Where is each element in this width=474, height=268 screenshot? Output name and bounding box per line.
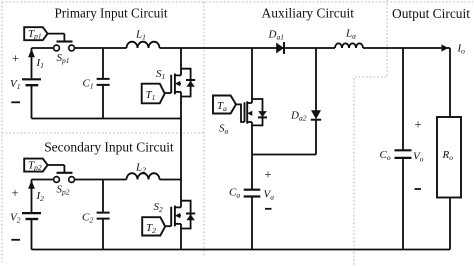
svg-text:Auxiliary Circuit: Auxiliary Circuit (262, 7, 355, 22)
wire bottom rail (32, 249, 451, 251)
current arrow Io (441, 44, 448, 51)
inductor L2 (127, 173, 160, 179)
mosfet S2 (171, 201, 195, 229)
wire primary bottom rail (32, 118, 182, 120)
dashed border top (2, 1, 473, 3)
mosfet S1 (171, 48, 195, 119)
wire interstage link S1 to S2 (180, 119, 182, 250)
svg-text:+: + (12, 51, 19, 66)
svg-text:+: + (11, 185, 18, 200)
tag T2 (142, 217, 165, 235)
tag Tp1 (24, 27, 47, 40)
diode Da2 (311, 110, 321, 119)
dashed divider primary/secondary (2, 132, 204, 134)
wire output right drop (449, 48, 451, 250)
tag Ta (213, 96, 236, 114)
switch Sp2 contact circles (54, 177, 60, 183)
tag T1 (142, 84, 165, 104)
capacitor C2 branch (102, 180, 104, 250)
svg-text:Primary Input Circuit: Primary Input Circuit (55, 7, 168, 22)
capacitor C1 branch (102, 48, 104, 119)
svg-text:+: + (414, 117, 421, 132)
wire primary top rail (32, 47, 451, 49)
dashed border left (1, 2, 3, 262)
minus V2 (11, 239, 20, 241)
diode Da1 (276, 43, 284, 54)
source V2 branch wire (31, 180, 33, 250)
mosfet Sa drain wire (251, 48, 253, 155)
switch Sp2 bar and stem (57, 172, 73, 174)
switch Sp1 contact circles (54, 45, 60, 51)
dashed divider auxiliary/output (354, 0, 387, 266)
dashed divider input/auxiliary (203, 2, 205, 257)
minus Va (265, 208, 272, 210)
wire secondary top rail (32, 179, 182, 181)
wire aux mid link (252, 154, 316, 156)
inductor L1 (127, 42, 160, 48)
source V1 branch wire (31, 48, 33, 119)
switch Sp1 bar and stem (57, 40, 73, 42)
svg-text:Output Circuit: Output Circuit (392, 7, 470, 22)
svg-text:Secondary Input Circuit: Secondary Input Circuit (44, 141, 174, 156)
svg-text:+: + (264, 167, 271, 182)
mosfet Sa (245, 99, 268, 125)
tag Tp2 (24, 159, 47, 172)
minus Vo (415, 188, 422, 190)
capacitor Co branch (402, 48, 404, 250)
battery V2 (22, 212, 41, 214)
diode Da2 branch wire (315, 48, 317, 155)
capacitor Ca branch (251, 155, 253, 250)
current arrow I1 (28, 49, 35, 58)
resistor Ro (437, 117, 461, 198)
battery V1 (22, 78, 41, 80)
inductor La (335, 43, 363, 48)
minus V1 (11, 101, 20, 103)
current arrow I2 (28, 180, 35, 189)
